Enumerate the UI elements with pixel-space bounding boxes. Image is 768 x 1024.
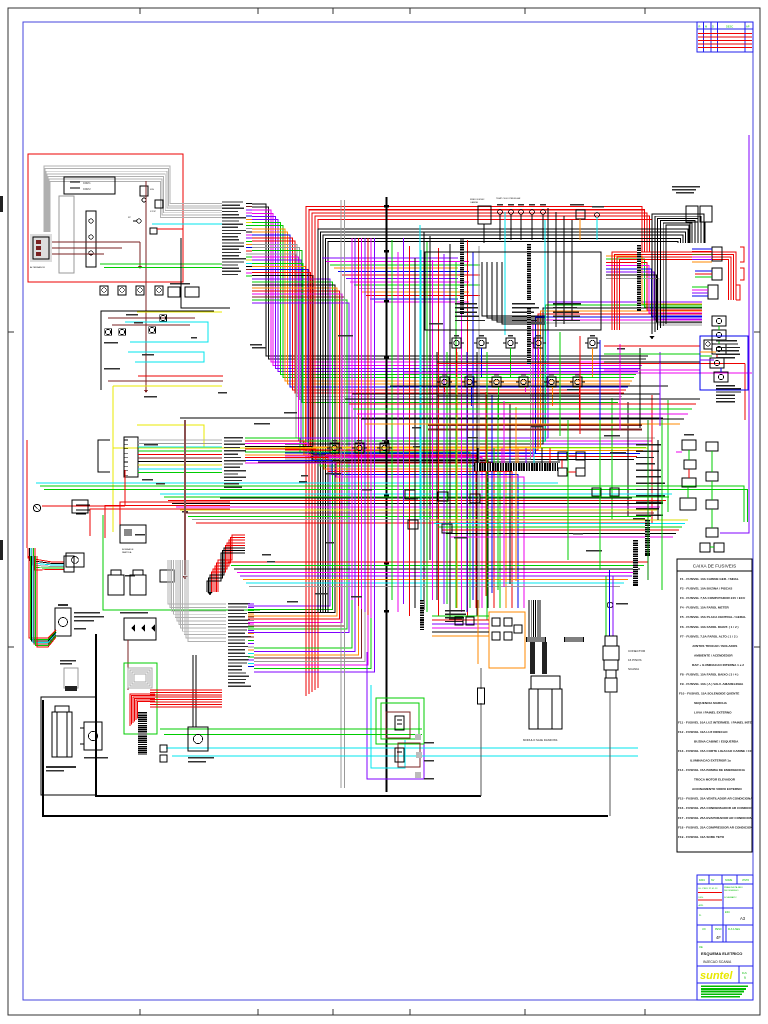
yellow loop wire: [137, 425, 204, 448]
svg-text:ALTERNADOR: ALTERNADOR: [30, 266, 45, 269]
black long horizontal 1: [180, 417, 663, 419]
right riser set: [559, 332, 561, 436]
relay row 1: [452, 338, 461, 348]
svg-text:DE DESENHO: DE DESENHO: [724, 890, 739, 892]
small sensor pair: [160, 745, 167, 752]
pin list divider: [657, 440, 659, 520]
compressor: [52, 712, 72, 757]
svg-text:UN: UN: [702, 928, 706, 931]
C1 side bracket: [98, 440, 110, 472]
title block: [697, 875, 753, 1000]
grey module outline: [59, 196, 74, 273]
svg-text:F3 - FUSIVEL 7,5A COMPUTADOR 2: F3 - FUSIVEL 7,5A COMPUTADOR 24V / ECU: [680, 596, 746, 600]
maroon lighting wires: [108, 317, 195, 319]
svg-text:A3: A3: [740, 916, 746, 921]
right link set: [604, 345, 700, 347]
cyan wire to label column: [152, 223, 222, 225]
lighting labels: [126, 314, 138, 315]
connector C1 fan-out wires: [138, 439, 222, 441]
comb connector strip: [474, 463, 558, 471]
alternator label: [672, 186, 700, 188]
red fan-out to label column B: [150, 689, 222, 691]
aux relay column 2: [706, 442, 718, 451]
orange drop: [477, 600, 479, 664]
ECU text paragraphs: [455, 303, 477, 304]
black long horizontal 4: [390, 385, 668, 387]
svg-text:F2 - FUSIVEL 10A BUZINA / PISC: F2 - FUSIVEL 10A BUZINA / PISCAS: [680, 587, 732, 591]
svg-text:AMBIENTE / ACENDEDOR: AMBIENTE / ACENDEDOR: [694, 653, 733, 657]
svg-text:F1 - FUSIVEL 10A CABINE GER. /: F1 - FUSIVEL 10A CABINE GER. / SINAL: [680, 577, 739, 581]
cyan module loop: [371, 685, 405, 768]
connector stack CS3: [708, 285, 718, 299]
accessory stub wires: [700, 351, 716, 353]
grey pads: [415, 734, 421, 740]
wire bundle MR engine harness: [285, 302, 702, 438]
black long horizontal 5: [352, 393, 660, 395]
aux risers right: [611, 398, 613, 520]
svg-text:F13 - FUSIVEL 15A CORTE LIGACA: F13 - FUSIVEL 15A CORTE LIGACAO CABINE /…: [678, 749, 765, 753]
svg-text:TEMP OLEO PRESS AR: TEMP OLEO PRESS AR: [496, 197, 521, 200]
wire label column B: [228, 603, 250, 604]
yellow long wire: [112, 425, 114, 532]
starter loom arrow: [650, 336, 655, 340]
comb connector feeds: [477, 448, 479, 463]
purple module loop: [367, 652, 424, 779]
cyan vertical 3: [504, 212, 506, 335]
relay row 2 drops: [444, 387, 446, 392]
svg-text:ILUMINACAO EXTERIOR 1a: ILUMINACAO EXTERIOR 1a: [690, 758, 731, 762]
green control loop: [103, 515, 260, 610]
horn sender: [595, 213, 600, 218]
green sensor box: [124, 663, 157, 734]
svg-text:R: R: [699, 25, 701, 29]
svg-text:FLS A SEG: FLS A SEG: [728, 928, 740, 931]
red left riser: [26, 440, 28, 548]
pressure label: [84, 757, 108, 759]
svg-text:4F: 4F: [716, 935, 721, 940]
scania connector stack: [605, 636, 617, 646]
svg-text:A.: A.: [699, 913, 702, 917]
wire riser field: [391, 240, 393, 600]
module connector cap: [531, 676, 560, 689]
connector stack CS1: [712, 247, 722, 261]
svg-text:PARTIDA: PARTIDA: [122, 551, 132, 554]
red nest right: [612, 252, 736, 330]
red harness box: [28, 154, 183, 282]
svg-text:LUVA / PAINEL EXTERNO: LUVA / PAINEL EXTERNO: [694, 711, 732, 715]
marker boxes top: [168, 287, 180, 297]
svg-text:F6 - FUSIVEL 10A FAROL DIANT.: F6 - FUSIVEL 10A FAROL DIANT. ( 1 / 2 ): [680, 625, 739, 629]
converging feed bundle: [28, 548, 64, 562]
svg-text:CONECTOR: CONECTOR: [628, 649, 646, 653]
wire bundle RB battery leads: [218, 535, 245, 592]
battery box 1: [686, 206, 698, 222]
wire rails east G4: [322, 257, 458, 259]
black floor line 1: [96, 634, 481, 796]
svg-text:F7 - FUSIVEL 7,5A FAROL ALTO (: F7 - FUSIVEL 7,5A FAROL ALTO ( 1 / 2 ): [680, 634, 737, 638]
svg-text:F15 - FUSIVEL 25A VENTILADOR A: F15 - FUSIVEL 25A VENTILADOR AR CONDICIO…: [678, 797, 758, 801]
svg-text:F11 - FUSIVEL 10A LUZ INTERMED: F11 - FUSIVEL 10A LUZ INTERMED. / PAINEL…: [678, 720, 762, 724]
vert strips VS: [420, 600, 424, 630]
grey twin verticals: [340, 200, 342, 788]
svg-text:D: D: [712, 25, 714, 29]
relay ladder column: [712, 316, 726, 326]
svg-text:NV: NV: [711, 879, 715, 882]
comb strip R2: [645, 520, 650, 556]
black L link: [181, 238, 230, 308]
svg-text:COM 2: COM 2: [83, 188, 91, 191]
pin strip connector P1: [637, 245, 641, 311]
orange box feed wires: [432, 615, 489, 617]
injection loom verticals: [547, 208, 549, 330]
switch S01: [150, 228, 157, 234]
fan module: [55, 608, 71, 636]
svg-text:SCANIA: SCANIA: [628, 667, 639, 671]
relay group frame: [437, 362, 580, 396]
bus junction nodes: [384, 205, 389, 207]
aux relay cluster: [558, 452, 567, 460]
svg-text:MODULO SAJE DANFOSS: MODULO SAJE DANFOSS: [523, 738, 557, 742]
black ground bundle: [318, 229, 688, 612]
red return elbows: [120, 502, 230, 540]
solenoid V1: [108, 575, 124, 595]
brown drop from diode pack: [127, 640, 129, 690]
fuse box row: [405, 490, 415, 499]
display unit: [64, 668, 78, 688]
pin strip connector P3: [527, 244, 531, 300]
cyan bottom pair: [166, 747, 638, 749]
wire band H2: [228, 561, 648, 563]
pin strip connector P2: [460, 238, 464, 314]
svg-text:16 PINOS: 16 PINOS: [628, 658, 642, 662]
wire bundle B1a cab harness: [252, 204, 648, 356]
yellow lighting wire 1: [137, 311, 222, 313]
blue accessories box: [700, 336, 748, 390]
orange control box: [489, 612, 525, 668]
battery box 2: [700, 206, 712, 222]
scania pilot light: [607, 602, 613, 608]
svg-text:suntel: suntel: [700, 970, 733, 982]
relay row under red box: [100, 286, 108, 295]
scattered wire labels: [412, 427, 421, 428]
relay K01: [140, 186, 148, 196]
pin list text block: [636, 444, 661, 445]
sensor circles row: [498, 210, 503, 215]
cyan lighting loop 2: [128, 352, 204, 362]
brown drop wire lower: [145, 282, 147, 390]
black floor line 2: [43, 700, 608, 816]
svg-text:F19 - FUSIVEL 10A SOBE TETO: F19 - FUSIVEL 10A SOBE TETO: [678, 835, 725, 839]
diode D01: [137, 219, 141, 223]
aux relay column 1: [682, 440, 696, 450]
pin row A: [526, 637, 546, 642]
relay K02: [155, 200, 163, 208]
green bottom pair: [160, 728, 422, 730]
svg-text:F14 - FUSIVEL 15A BOMBA DE EME: F14 - FUSIVEL 15A BOMBA DE EMERGENCIA: [678, 768, 746, 772]
yellow lighting wire 2: [113, 385, 222, 387]
starter loom black bundle: [652, 214, 704, 334]
scania drop wire: [609, 692, 611, 816]
connector box A1: [64, 177, 115, 194]
svg-text:COM 1: COM 1: [83, 182, 91, 185]
red rail long: [437, 363, 745, 365]
equipment bay box: [41, 697, 96, 795]
harness sleeve 1: [530, 642, 535, 674]
compressor label: [46, 766, 76, 768]
wire band H1: [160, 493, 672, 495]
black long horizontal 3: [258, 461, 560, 463]
magenta rail long: [404, 372, 752, 374]
svg-text:FREIO ESTAC: FREIO ESTAC: [470, 198, 485, 201]
red power bundle: [306, 207, 642, 697]
arrow ground RB: [208, 592, 213, 596]
cyan vertical 1: [419, 225, 421, 520]
svg-text:F9 - FUSIVEL 10A ( A ) VALV. A: F9 - FUSIVEL 10A ( A ) VALV. AMARELINHA: [680, 682, 744, 686]
page margin artifact 1: [0, 196, 3, 212]
label column A wire stubs: [246, 203, 252, 205]
orange box relays: [492, 618, 500, 626]
black long horizontal 2: [220, 497, 632, 499]
label column B stubs: [248, 603, 254, 605]
pin strip connector P4: [527, 308, 531, 364]
svg-text:F10 - FUSIVEL 15A SOLENOIDE QU: F10 - FUSIVEL 15A SOLENOIDE QUENTE: [679, 692, 739, 696]
svg-text:F16 - FUSIVEL 25A CONDENSADOR: F16 - FUSIVEL 25A CONDENSADOR AR CONDICI…: [678, 806, 768, 810]
svg-text:DATA: DATA: [699, 879, 705, 882]
bomba box: [120, 525, 146, 543]
grey nest in sensor box: [128, 668, 152, 688]
wire band H3: [430, 519, 688, 521]
relay row 1 drops: [456, 348, 458, 377]
svg-text:NOME: NOME: [725, 879, 733, 882]
green box pair: [376, 698, 424, 744]
pin row B: [564, 637, 584, 642]
grey loom wires: [44, 166, 222, 232]
lamp symbols: [105, 329, 110, 334]
connector stack CS2: [712, 268, 722, 280]
wire riser field east: [485, 392, 487, 596]
page margin artifact 2: [0, 540, 3, 560]
cyan lighting loop 1: [125, 322, 208, 342]
svg-text:INJECAO SCANIA: INJECAO SCANIA: [703, 960, 732, 964]
dashed connector strip: [86, 211, 96, 267]
brown frame 1: [386, 712, 410, 738]
svg-text:JUNTOS TROCAR / ISOLADOS: JUNTOS TROCAR / ISOLADOS: [692, 644, 737, 648]
ECU wire loop box: [425, 252, 601, 330]
wire bundle RE injection: [606, 256, 702, 304]
fan module labels: [74, 612, 100, 614]
purple margin wire: [720, 135, 749, 533]
thick black bus vertical: [385, 197, 387, 792]
horn feed red: [42, 505, 125, 507]
cyan vertical 2: [544, 220, 546, 442]
svg-text:PESO: PESO: [715, 928, 722, 931]
svg-text:CAIXA DE FUSIVEIS: CAIXA DE FUSIVEIS: [693, 564, 736, 569]
legend side cluster: [700, 543, 710, 552]
red nest in sensor box: [130, 694, 155, 726]
terminal T1: [395, 716, 404, 730]
svg-text:F8 - FUSIVEL 15A FAROL BAIXO (: F8 - FUSIVEL 15A FAROL BAIXO ( 3 / 4 ): [680, 673, 738, 677]
svg-text:APR.: APR.: [699, 904, 704, 907]
svg-text:IGN: IGN: [150, 189, 154, 191]
svg-text:VISTO: VISTO: [742, 879, 749, 882]
svg-text:PRANCHETA NRO: PRANCHETA NRO: [724, 886, 743, 889]
svg-text:FP: FP: [128, 217, 131, 219]
brown riser: [184, 420, 186, 575]
green long pair: [40, 486, 744, 522]
brown lighting wire: [108, 380, 223, 382]
twin risers to pressure box: [192, 655, 194, 727]
black vertical pair: [423, 232, 425, 610]
left power connector: [30, 234, 52, 262]
fuse holder drop: [480, 668, 482, 796]
border tick marks: [139, 8, 141, 14]
solenoid V2: [130, 575, 146, 595]
svg-text:F5 - FUSIVEL 15A PLACA CENTRAL: F5 - FUSIVEL 15A PLACA CENTRAL / GERAL: [680, 615, 746, 619]
svg-text:EL. PROJ 27.01.13: EL. PROJ 27.01.13: [699, 888, 719, 890]
feed connector: [64, 556, 74, 572]
comb strip R1: [633, 540, 638, 586]
fuel sender: [576, 210, 585, 219]
svg-text:DESC: DESC: [726, 25, 733, 29]
wire bundle B1c return harness: [248, 279, 330, 606]
wire riser field mid: [436, 352, 438, 600]
red lighting wire: [138, 375, 223, 377]
red jumper wire: [157, 228, 183, 230]
green risers right: [567, 420, 569, 560]
svg-text:M: M: [705, 25, 707, 29]
strip labels: [445, 610, 465, 611]
brown frame 2: [398, 743, 420, 767]
wire bundle CC to floor: [245, 438, 470, 608]
pressure switch: [84, 722, 102, 750]
flasher relay: [66, 553, 84, 567]
svg-text:ACIONAMENTO VIDRO EXTERNO: ACIONAMENTO VIDRO EXTERNO: [692, 787, 742, 791]
svg-text:DES.: DES.: [699, 897, 704, 899]
scania feeds: [605, 576, 607, 636]
wire band H4: [345, 398, 700, 400]
striped connector strip: [138, 712, 147, 755]
fan module harness: [29, 556, 56, 638]
svg-text:SEQUENCIA MARCHA: SEQUENCIA MARCHA: [694, 701, 728, 705]
sensor connector CN1: [478, 206, 491, 224]
wire bundle B1d lower return: [254, 600, 352, 648]
relay row 3: [330, 443, 339, 453]
svg-text:ESC: ESC: [725, 911, 730, 914]
connector stack feed wires: [692, 248, 712, 250]
svg-text:STOP: STOP: [150, 211, 156, 213]
strip relays: [455, 617, 463, 625]
wire label column C: [224, 437, 243, 438]
ECU side black cluster: [482, 262, 545, 316]
accessories box labels: [716, 340, 737, 341]
maroon thick pair: [428, 424, 642, 426]
brown drop wire: [145, 181, 147, 282]
svg-text:FLS: FLS: [742, 971, 747, 975]
junction box J1: [72, 500, 88, 513]
svg-text:F12 - FUSIVEL 10A LUZ DIRECAO: F12 - FUSIVEL 10A LUZ DIRECAO: [678, 730, 728, 734]
harness sleeve 2: [542, 642, 547, 674]
cyan dash wire: [36, 482, 558, 484]
svg-text:F17 - FUSIVEL 25A EVAPORADOR A: F17 - FUSIVEL 25A EVAPORADOR AR CONDICIO…: [678, 816, 768, 820]
relay row 2: [440, 377, 449, 387]
svg-text:TROCA MOTOR ELEVADOR: TROCA MOTOR ELEVADOR: [694, 778, 736, 782]
svg-text:SCHEMATIC: SCHEMATIC: [724, 896, 737, 899]
wire riser field west: [351, 238, 353, 600]
lighting group L-frame: [101, 311, 214, 390]
module feed verticals: [528, 600, 530, 637]
svg-text:OE: OE: [699, 945, 703, 949]
svg-text:F18 - FUSIVEL 25A COMPRESSOR A: F18 - FUSIVEL 25A COMPRESSOR AR CONDICIO…: [678, 825, 760, 829]
svg-text:BOMBA DE: BOMBA DE: [122, 548, 134, 551]
horn M1: [33, 504, 40, 511]
diode pack: [124, 618, 156, 640]
revision table: [697, 22, 753, 52]
terminal T2: [395, 748, 404, 762]
second pressure box: [188, 727, 208, 751]
svg-text:AP: AP: [746, 25, 750, 29]
sensor box S2: [160, 570, 174, 582]
svg-text:F4 - FUSIVEL 15A FAROL METER: F4 - FUSIVEL 15A FAROL METER: [680, 606, 730, 610]
grey fan-out to label column B: [168, 560, 226, 604]
svg-text:BUZINA CABINE / ESQUERDA: BUZINA CABINE / ESQUERDA: [694, 739, 739, 743]
connector block C1: [124, 437, 138, 477]
relay ladder labels: [716, 385, 735, 386]
wire bundle B1b mid harness: [252, 254, 655, 438]
svg-text:RAP + ILUMINACAO INTERNA 1 e 2: RAP + ILUMINACAO INTERNA 1 e 2: [692, 663, 744, 667]
wire label column A: [222, 201, 243, 202]
maroon feed wires: [52, 241, 140, 243]
svg-text:CABINE: CABINE: [470, 201, 479, 204]
accessory connector: [704, 340, 712, 349]
module body: [529, 689, 562, 729]
green wires to label column: [100, 263, 222, 265]
svg-text:9: 9: [744, 976, 746, 980]
svg-text:ESQUEMA ELETRICO: ESQUEMA ELETRICO: [701, 951, 742, 956]
